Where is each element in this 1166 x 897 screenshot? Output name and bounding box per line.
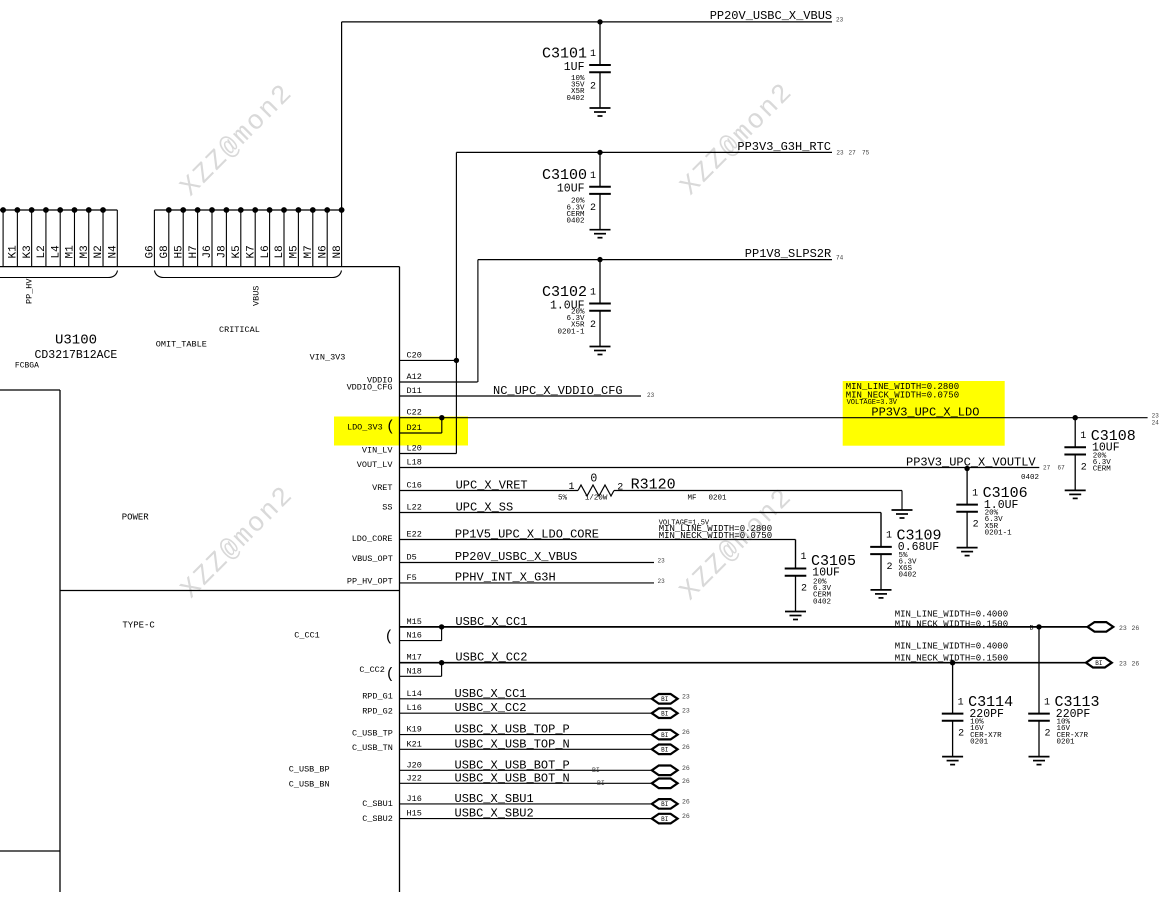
svg-text:USBC_X_USB_BOT_N: USBC_X_USB_BOT_N — [455, 771, 570, 785]
svg-text:C_USB_TN: C_USB_TN — [352, 743, 393, 753]
ground C3114 — [942, 757, 963, 765]
offpage connector CC2 — [1086, 658, 1112, 668]
svg-text:POWER: POWER — [122, 513, 150, 523]
svg-text:H15: H15 — [407, 809, 422, 819]
svg-text:RPD_G1: RPD_G1 — [362, 692, 393, 702]
svg-text:VBUS: VBUS — [252, 286, 262, 306]
pin G8 (VBUS bank) — [159, 207, 172, 267]
pin H15 stub — [400, 809, 652, 819]
svg-text:1: 1 — [886, 531, 892, 542]
offpage connector USBC_X_CC2 — [652, 708, 678, 718]
svg-text:CERM: CERM — [1093, 466, 1112, 474]
junction C20 — [454, 358, 459, 363]
ground C3101 — [590, 108, 611, 116]
svg-text:N18: N18 — [407, 666, 422, 676]
wire D21 jog up to C22 net — [441, 418, 443, 433]
pin J8 (VBUS bank) — [217, 207, 230, 267]
svg-text:26: 26 — [682, 744, 690, 751]
junction C3100 top — [597, 150, 602, 155]
pin K5 (VBUS bank) — [231, 207, 244, 267]
pin L6 (VBUS bank) — [260, 207, 273, 267]
junction M17/N18 — [439, 660, 444, 665]
wire N16 jog up to M15 net — [441, 627, 443, 641]
pin C16 stub — [400, 481, 579, 491]
pin L16 stub — [400, 703, 652, 713]
svg-text:L8: L8 — [274, 245, 286, 258]
svg-text:(: ( — [386, 666, 395, 683]
svg-text:PP_HV: PP_HV — [25, 278, 35, 304]
svg-text:MIN_LINE_WIDTH=0.4000: MIN_LINE_WIDTH=0.4000 — [895, 610, 1008, 620]
svg-text:27: 27 — [849, 150, 857, 157]
svg-text:H5: H5 — [173, 245, 185, 258]
note box right edge — [59, 390, 61, 892]
svg-text:J6: J6 — [202, 245, 214, 258]
svg-text:23: 23 — [682, 693, 690, 700]
svg-text:USBC_X_CC2: USBC_X_CC2 — [455, 701, 527, 715]
svg-text:USBC_X_CC1: USBC_X_CC1 — [455, 615, 527, 629]
svg-text:M1: M1 — [65, 245, 77, 259]
svg-text:C_CC2: C_CC2 — [359, 665, 385, 675]
svg-text:VIN_LV: VIN_LV — [362, 446, 394, 456]
svg-text:L16: L16 — [407, 703, 422, 713]
svg-text:C3100: C3100 — [542, 167, 587, 184]
junction C22/D21 — [439, 415, 444, 420]
svg-text:MF: MF — [688, 495, 697, 503]
svg-text:K7: K7 — [245, 245, 257, 258]
svg-text:OMIT_TABLE: OMIT_TABLE — [156, 340, 207, 350]
svg-text:L22: L22 — [407, 503, 422, 513]
svg-text:23: 23 — [658, 558, 666, 565]
offpage connector USBC_X_USB_BOT_P — [652, 766, 678, 776]
svg-text:(: ( — [386, 418, 395, 435]
svg-text:2: 2 — [1081, 462, 1087, 473]
svg-text:UPC_X_VRET: UPC_X_VRET — [456, 478, 528, 492]
svg-text:C_SBU1: C_SBU1 — [362, 799, 393, 809]
svg-text:K5: K5 — [231, 245, 243, 258]
pin E22 stub — [400, 530, 796, 540]
junction C3114 top — [950, 660, 955, 665]
offpage connector USBC_X_USB_TOP_N — [652, 745, 678, 755]
svg-text:23: 23 — [647, 392, 655, 399]
IC U3100 right edge — [399, 267, 401, 892]
pin M5 (VBUS bank) — [289, 207, 302, 267]
svg-text:0201-1: 0201-1 — [985, 529, 1013, 537]
svg-text:C20: C20 — [407, 350, 422, 360]
svg-text:26: 26 — [682, 778, 690, 785]
svg-text:D5: D5 — [407, 553, 417, 563]
svg-text:C22: C22 — [407, 408, 422, 418]
svg-text:BI: BI — [661, 816, 668, 823]
svg-text:N4: N4 — [108, 245, 120, 259]
svg-text:23: 23 — [1152, 412, 1160, 419]
svg-text:0201: 0201 — [970, 738, 989, 746]
ground C3102 — [590, 347, 611, 355]
svg-text:1: 1 — [801, 552, 807, 563]
wire SS to C3109 — [880, 513, 882, 547]
svg-text:L18: L18 — [407, 458, 422, 468]
wire net PP20V_USBC_X_VBUS (top) — [342, 21, 832, 23]
svg-text:23: 23 — [658, 578, 666, 585]
capacitor C3105 — [785, 540, 856, 612]
svg-text:27: 27 — [1043, 465, 1051, 472]
svg-text:C3101: C3101 — [542, 46, 587, 63]
svg-text:PPHV_INT_X_G3H: PPHV_INT_X_G3H — [455, 571, 556, 585]
svg-text:A12: A12 — [407, 372, 422, 382]
svg-text:0: 0 — [590, 473, 597, 486]
svg-text:C_USB_TP: C_USB_TP — [352, 728, 393, 738]
wire LDO_CORE to C3105 — [795, 540, 797, 569]
note box divider — [0, 850, 60, 852]
offpage connector CC1 — [1088, 622, 1114, 632]
svg-text:BI: BI — [661, 801, 668, 808]
pin K21 stub — [400, 739, 652, 749]
pin J22 stub — [400, 773, 652, 783]
svg-text:2: 2 — [958, 729, 964, 740]
svg-text:MIN_LINE_WIDTH=0.4000: MIN_LINE_WIDTH=0.4000 — [895, 642, 1008, 652]
capacitor C3114 — [942, 663, 1013, 757]
pin F5 stub — [400, 573, 655, 583]
svg-text:PP3V3_UPC_X_VOUTLV: PP3V3_UPC_X_VOUTLV — [906, 456, 1036, 470]
ground C3108 — [1065, 490, 1086, 498]
svg-text:0402: 0402 — [566, 218, 584, 226]
ground C3113 — [1029, 757, 1050, 765]
junction C3106 top — [964, 466, 969, 471]
pin K19 stub — [400, 725, 652, 735]
svg-text:23: 23 — [836, 17, 844, 24]
pin A12 stub — [400, 372, 478, 382]
svg-text:2: 2 — [617, 483, 623, 494]
svg-text:F5: F5 — [407, 573, 417, 583]
svg-text:C3102: C3102 — [542, 284, 587, 301]
svg-text:67: 67 — [1058, 465, 1066, 472]
capacitor C3109 — [870, 513, 941, 590]
pin L14 stub — [400, 689, 652, 699]
ground C3105 — [785, 612, 806, 620]
svg-text:M5: M5 — [289, 245, 301, 258]
svg-text:M3: M3 — [79, 245, 91, 258]
svg-text:N2: N2 — [93, 245, 105, 258]
pin J20 stub — [400, 760, 652, 770]
svg-text:L6: L6 — [260, 245, 272, 258]
svg-text:USBC_X_USB_TOP_N: USBC_X_USB_TOP_N — [455, 737, 570, 751]
svg-text:K1: K1 — [8, 245, 20, 259]
svg-text:USBC_X_CC2: USBC_X_CC2 — [455, 651, 527, 665]
svg-text:LDO_3V3: LDO_3V3 — [347, 423, 383, 433]
pin C20 stub — [400, 350, 457, 360]
svg-text:USBC_X_USB_BOT_P: USBC_X_USB_BOT_P — [455, 758, 570, 772]
offpage connector USBC_X_USB_TOP_P — [652, 730, 678, 740]
svg-text:K21: K21 — [407, 739, 422, 749]
bus wire VBUS bank — [154, 209, 341, 211]
capacitor C3106 — [956, 469, 1027, 548]
ground C3106 — [957, 548, 978, 556]
svg-text:10UF: 10UF — [557, 183, 585, 196]
wire VBUS riser to PP20V — [341, 22, 343, 210]
svg-text:SS: SS — [382, 502, 392, 512]
svg-text:VDDIO_CFG: VDDIO_CFG — [347, 382, 393, 392]
capacitor C3101 — [542, 22, 611, 108]
svg-text:BI: BI — [661, 732, 668, 739]
pin H5 (VBUS bank) — [173, 207, 186, 267]
group brace PP_HV — [0, 271, 118, 278]
svg-text:N8: N8 — [332, 245, 344, 258]
pin C22 stub — [400, 408, 1148, 418]
svg-text:C_SBU2: C_SBU2 — [362, 814, 393, 824]
pin D21 stub — [400, 423, 442, 433]
capacitor C3108 — [1064, 418, 1135, 491]
svg-text:CRITICAL: CRITICAL — [219, 325, 260, 335]
pin M1 (PP_HV bank) — [65, 207, 78, 267]
svg-text:M15: M15 — [407, 617, 422, 627]
capacitor C3102 — [542, 260, 611, 347]
svg-text:1: 1 — [590, 49, 596, 60]
svg-text:G8: G8 — [159, 245, 171, 258]
wire VRET to ground — [901, 491, 903, 511]
svg-text:PP20V_USBC_X_VBUS: PP20V_USBC_X_VBUS — [455, 550, 577, 564]
svg-text:TYPE-C: TYPE-C — [122, 621, 155, 631]
svg-text:26: 26 — [682, 798, 690, 805]
svg-text:1: 1 — [1080, 431, 1086, 442]
svg-text:2: 2 — [590, 82, 596, 93]
svg-text:R3120: R3120 — [631, 476, 676, 493]
pin M3 (PP_HV bank) — [79, 207, 92, 267]
pin L22 stub — [400, 503, 882, 513]
svg-text:VBUS_OPT: VBUS_OPT — [352, 554, 393, 564]
svg-text:U3100: U3100 — [55, 333, 97, 349]
svg-text:PP1V8_SLPS2R: PP1V8_SLPS2R — [745, 247, 831, 261]
group brace VBUS — [155, 271, 342, 278]
svg-text:BI: BI — [661, 747, 668, 754]
svg-text:23: 23 — [682, 708, 690, 715]
svg-text:VRET: VRET — [372, 483, 392, 493]
capacitor C3113 — [1028, 627, 1099, 757]
svg-text:1: 1 — [958, 697, 964, 708]
svg-text:26: 26 — [682, 729, 690, 736]
pin N8 (VBUS bank) — [332, 207, 345, 267]
offpage connector USBC_X_USB_BOT_N — [652, 779, 678, 789]
svg-text:(: ( — [385, 628, 394, 645]
ground VRET — [892, 510, 913, 518]
pin M17 stub — [400, 653, 1087, 663]
svg-text:BI: BI — [597, 780, 605, 787]
junction C3101 top — [597, 19, 602, 24]
pin L4 (PP_HV bank) — [50, 207, 63, 267]
svg-text:L14: L14 — [407, 689, 422, 699]
svg-text:VIN_3V3: VIN_3V3 — [310, 353, 346, 363]
svg-text:VOUT_LV: VOUT_LV — [357, 460, 394, 470]
junction C3108 top — [1073, 415, 1078, 420]
wire net PP1V8_SLPS2R — [478, 259, 832, 261]
svg-text:BI: BI — [661, 696, 668, 703]
pin N4 (PP_HV bank) — [108, 210, 120, 267]
svg-text:26: 26 — [1132, 661, 1140, 668]
svg-text:PP20V_USBC_X_VBUS: PP20V_USBC_X_VBUS — [710, 9, 832, 23]
svg-text:NC_UPC_X_VDDIO_CFG: NC_UPC_X_VDDIO_CFG — [493, 384, 623, 398]
junction C3113 top — [1036, 624, 1041, 629]
svg-text:RPD_G2: RPD_G2 — [362, 706, 393, 716]
svg-text:USBC_X_USB_TOP_P: USBC_X_USB_TOP_P — [455, 723, 570, 737]
svg-text:2: 2 — [1045, 729, 1051, 740]
svg-text:5%: 5% — [558, 495, 568, 503]
svg-text:23: 23 — [1119, 661, 1127, 668]
pin J16 stub — [400, 794, 652, 804]
svg-text:26: 26 — [1132, 625, 1140, 632]
op-amp U1 IC U3100 outline top edge — [0, 266, 400, 268]
svg-text:PP_HV_OPT: PP_HV_OPT — [347, 576, 393, 586]
ground C3109 — [871, 590, 892, 598]
ground C3100 — [590, 230, 611, 238]
svg-text:D11: D11 — [407, 386, 422, 396]
svg-text:74: 74 — [836, 254, 844, 261]
svg-text:H7: H7 — [188, 245, 200, 258]
svg-text:N16: N16 — [407, 631, 422, 641]
junction C3102 top — [597, 257, 602, 262]
pin L8 (VBUS bank) — [274, 207, 287, 267]
pin N2 (PP_HV bank) — [93, 207, 106, 267]
svg-text:BI: BI — [661, 711, 668, 718]
bus wire PP_HV bank — [0, 209, 117, 211]
svg-text:0402: 0402 — [813, 598, 831, 606]
IC section divider POWER/TYPE-C — [60, 590, 400, 592]
svg-text:L4: L4 — [50, 245, 62, 259]
svg-text:CD3217B12ACE: CD3217B12ACE — [35, 349, 118, 362]
svg-text:1: 1 — [569, 482, 575, 493]
offpage connector USBC_X_SBU2 — [652, 814, 678, 824]
svg-text:2: 2 — [973, 520, 979, 531]
wire N18 jog up to M17 net — [441, 663, 443, 677]
svg-text:USBC_X_SBU2: USBC_X_SBU2 — [455, 807, 534, 821]
pin L2 (PP_HV bank) — [36, 207, 49, 267]
pin D5 stub — [400, 553, 655, 563]
svg-text:2: 2 — [801, 584, 807, 595]
svg-text:M7: M7 — [303, 245, 315, 258]
svg-text:0201: 0201 — [709, 495, 728, 503]
pin L20 stub — [400, 444, 457, 454]
svg-text:0402: 0402 — [566, 95, 584, 103]
svg-text:J20: J20 — [407, 760, 422, 770]
svg-text:75: 75 — [862, 150, 870, 157]
svg-text:23: 23 — [836, 150, 844, 157]
svg-text:26: 26 — [682, 765, 690, 772]
wire riser PP1V8_SLPS2R to A12 — [477, 260, 479, 382]
svg-text:2: 2 — [590, 203, 596, 214]
pin D11 stub — [400, 386, 642, 396]
svg-text:1UF: 1UF — [564, 61, 585, 74]
pin N6 (VBUS bank) — [317, 207, 330, 267]
svg-text:LDO_CORE: LDO_CORE — [352, 534, 393, 544]
svg-text:L20: L20 — [407, 444, 422, 454]
svg-text:C_USB_BN: C_USB_BN — [289, 779, 330, 789]
svg-text:G6: G6 — [145, 245, 157, 258]
svg-text:UPC_X_SS: UPC_X_SS — [456, 501, 514, 515]
offpage connector USBC_X_SBU1 — [652, 799, 678, 809]
svg-text:MIN_NECK_WIDTH=0.0750: MIN_NECK_WIDTH=0.0750 — [659, 531, 772, 541]
svg-text:1: 1 — [590, 288, 596, 299]
svg-text:K3: K3 — [22, 245, 34, 258]
svg-text:26: 26 — [682, 813, 690, 820]
svg-text:USBC_X_CC1: USBC_X_CC1 — [455, 687, 527, 701]
svg-text:2: 2 — [887, 562, 893, 573]
svg-text:MIN_NECK_WIDTH=0.1500: MIN_NECK_WIDTH=0.1500 — [895, 619, 1008, 629]
svg-text:BI: BI — [1095, 660, 1102, 667]
svg-text:1/20W: 1/20W — [585, 495, 608, 503]
svg-text:0201: 0201 — [1057, 738, 1076, 746]
svg-text:E22: E22 — [407, 530, 422, 540]
svg-text:D21: D21 — [407, 423, 422, 433]
svg-text:B: B — [1030, 625, 1034, 632]
pin J6 (VBUS bank) — [202, 207, 215, 267]
svg-text:PP3V3_G3H_RTC: PP3V3_G3H_RTC — [737, 140, 831, 154]
pin H7 (VBUS bank) — [188, 207, 201, 267]
pin M15 stub — [400, 617, 1088, 627]
svg-text:0402: 0402 — [1021, 474, 1039, 482]
svg-text:J8: J8 — [217, 245, 229, 258]
pin G6 (VBUS bank) — [145, 210, 157, 267]
svg-text:2: 2 — [590, 320, 596, 331]
svg-text:USBC_X_SBU1: USBC_X_SBU1 — [455, 792, 534, 806]
pin M7 (VBUS bank) — [303, 207, 316, 267]
svg-text:0402: 0402 — [899, 572, 917, 580]
svg-text:23: 23 — [1119, 625, 1127, 632]
svg-text:FCBGA: FCBGA — [15, 361, 39, 370]
svg-text:N6: N6 — [317, 245, 329, 258]
pin K1 (PP_HV bank) — [8, 207, 21, 267]
highlight PP3V3_UPC_X_LDO note — [843, 381, 1005, 446]
pin N18 stub — [400, 666, 442, 676]
svg-text:C16: C16 — [407, 481, 422, 491]
svg-text:1: 1 — [1044, 697, 1050, 708]
pin K3 (PP_HV bank) — [22, 207, 35, 267]
svg-text:K19: K19 — [407, 725, 422, 735]
svg-text:1: 1 — [590, 171, 596, 182]
svg-text:PP1V5_UPC_X_LDO_CORE: PP1V5_UPC_X_LDO_CORE — [455, 527, 599, 541]
wire riser PP3V3_G3H_RTC to C20/L20 — [455, 152, 457, 453]
wire net PP3V3_G3H_RTC — [456, 151, 832, 153]
pin K7 (VBUS bank) — [245, 207, 258, 267]
svg-text:C_USB_BP: C_USB_BP — [289, 764, 330, 774]
highlight LDO_3V3/D21 — [334, 417, 468, 446]
note box top edge — [0, 389, 60, 391]
capacitor C3100 — [542, 152, 611, 229]
svg-text:PP3V3_UPC_X_LDO: PP3V3_UPC_X_LDO — [871, 405, 979, 419]
svg-text:M17: M17 — [407, 653, 422, 663]
pin N16 stub — [400, 631, 442, 641]
svg-text:J22: J22 — [407, 773, 422, 783]
pin offpage (PP_HV bank) — [0, 207, 6, 267]
resistor R3120 — [558, 473, 902, 503]
svg-text:1: 1 — [972, 488, 978, 499]
svg-text:0201-1: 0201-1 — [557, 328, 585, 336]
svg-text:24: 24 — [1152, 419, 1160, 426]
svg-text:C_CC1: C_CC1 — [294, 631, 320, 641]
svg-text:BI: BI — [592, 767, 600, 774]
pin L18 stub — [400, 458, 1040, 468]
svg-text:J16: J16 — [407, 794, 422, 804]
offpage connector USBC_X_CC1 — [652, 694, 678, 704]
svg-text:L2: L2 — [36, 245, 48, 258]
junction M15/N16 — [439, 624, 444, 629]
